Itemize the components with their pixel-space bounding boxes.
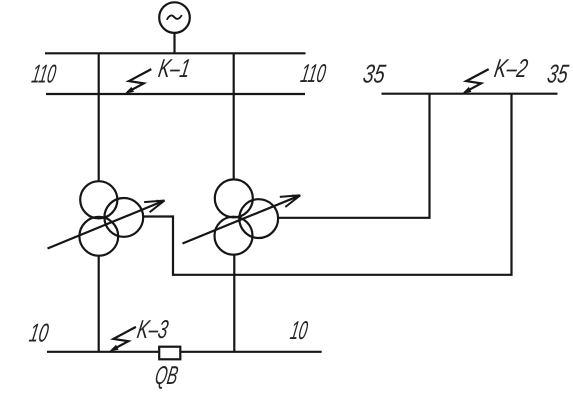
- fault K-3 symbol: [109, 327, 135, 352]
- svg-text:K–1: K–1: [156, 53, 192, 83]
- svg-text:QB: QB: [153, 360, 180, 390]
- svg-text:35: 35: [545, 58, 571, 88]
- svg-text:110: 110: [299, 58, 329, 88]
- svg-text:K–3: K–3: [135, 314, 171, 344]
- generator U1: [159, 2, 190, 33]
- transformer T1: [48, 181, 165, 256]
- wire left feeder vertical: [98, 53, 100, 181]
- busbar 35kV: [382, 93, 558, 95]
- svg-text:35: 35: [361, 58, 388, 88]
- busbar 110kV bottom: [46, 93, 305, 95]
- reactor QB: [159, 347, 180, 360]
- wire T2 bottom drop: [233, 255, 235, 352]
- wire T2 medium winding to 35kV bus: [278, 94, 429, 218]
- wire T1 medium winding to 35kV bus: [143, 94, 511, 275]
- fault K-1 symbol: [125, 69, 152, 94]
- wire right feeder vertical: [233, 53, 235, 180]
- busbar 110kV top: [45, 52, 306, 54]
- svg-text:10: 10: [27, 318, 51, 348]
- svg-text:10: 10: [288, 315, 310, 345]
- busbar 10kV: [47, 351, 322, 353]
- wire generator drop: [173, 33, 175, 53]
- transformer T2: [183, 179, 301, 254]
- wire T1 bottom drop: [98, 256, 100, 352]
- svg-text:110: 110: [30, 58, 59, 88]
- svg-text:K–2: K–2: [492, 53, 530, 83]
- fault K-2 symbol: [462, 69, 489, 94]
